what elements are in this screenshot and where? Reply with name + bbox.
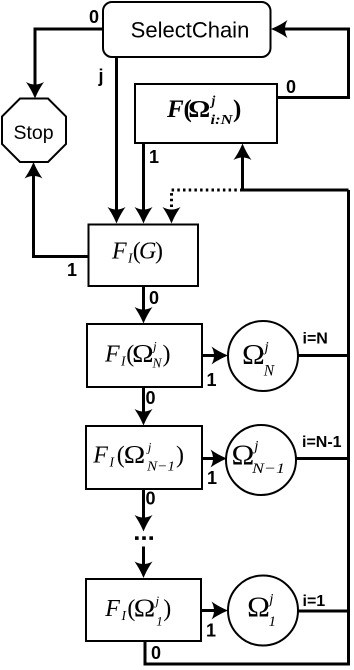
- svg-text:G: G: [139, 239, 156, 265]
- arrowhead into FI(Omega 1) top: [135, 562, 153, 579]
- wire circle N to bus: [297, 354, 350, 357]
- svg-text:0: 0: [145, 489, 155, 509]
- arrowhead into FI(G) top (dotted branch): [163, 207, 181, 224]
- wire dotted feedback to FI(G) top: [172, 190, 243, 213]
- wire F(Omega i:N) bottom 1-branch to FI(G): [142, 143, 145, 212]
- node Stop (octagon): [2, 99, 66, 163]
- arrowhead into circle 1: [212, 602, 229, 620]
- wire FI(G) bottom 0 to FI(Omega N): [142, 286, 145, 312]
- arrowhead into Stop top: [26, 82, 44, 99]
- wire SelectChain left 0-branch to Stop: [35, 29, 103, 87]
- wire dots to FI(Omega 1): [142, 547, 145, 567]
- svg-text:Ω: Ω: [134, 595, 156, 622]
- node circle Omega N: [228, 321, 298, 391]
- arrowhead into circle N-1: [211, 450, 228, 468]
- node FI(Omega 1) box: [86, 579, 201, 641]
- svg-text:Stop: Stop: [13, 122, 53, 144]
- svg-text:F: F: [111, 239, 127, 265]
- svg-text:N−1: N−1: [146, 460, 175, 475]
- svg-text:i:N: i:N: [211, 112, 235, 127]
- svg-text:1: 1: [156, 614, 163, 629]
- svg-text:i=1: i=1: [303, 593, 326, 610]
- wire FI(Omega N) right 1 to circle N: [202, 354, 217, 357]
- wire feedback solid from bus to F(Omega i:N) bottom: [243, 155, 349, 190]
- svg-text:F: F: [166, 96, 184, 123]
- svg-text:i=N: i=N: [303, 331, 328, 348]
- arrowhead above dots: [135, 515, 153, 532]
- svg-text:i=N-1: i=N-1: [302, 434, 342, 451]
- wire FI(G) left 1-branch to Stop bottom: [34, 174, 90, 257]
- arrowhead into FI(Omega N-1) top: [135, 409, 153, 426]
- wire FI(Omega N-1) bottom 0 to dots: [142, 489, 145, 520]
- arrowhead up into F(Omega i:N) bottom: [234, 144, 252, 161]
- svg-text:SelectChain: SelectChain: [131, 18, 250, 43]
- wire bottom 0-loop from FI(Omega 1) to right bus: [145, 190, 349, 664]
- svg-text:1: 1: [207, 468, 217, 488]
- svg-text:1: 1: [206, 621, 216, 641]
- wire FI(Omega 1) right 1 to circle 1: [201, 609, 217, 612]
- svg-text:): ): [155, 239, 163, 265]
- arrowhead up into Stop bottom: [25, 162, 43, 179]
- wire circle N-1 to bus: [296, 457, 350, 460]
- node SelectChain: [103, 2, 271, 57]
- node FI(G) box: [89, 225, 199, 287]
- svg-text:F: F: [92, 443, 108, 469]
- arrowhead into FI(G) top (j): [108, 207, 126, 224]
- svg-text:1: 1: [149, 147, 159, 167]
- node dots (ellipsis between chain boxes): [135, 536, 153, 540]
- svg-text:0: 0: [89, 7, 99, 27]
- node FI(Omega N) box: [87, 324, 202, 387]
- svg-text:0: 0: [145, 388, 155, 408]
- svg-text:0: 0: [149, 288, 159, 308]
- svg-text:Ω: Ω: [232, 441, 255, 472]
- svg-text:Ω: Ω: [188, 97, 210, 123]
- arrowhead into FI(Omega N) top: [135, 307, 153, 324]
- svg-text:N−1: N−1: [251, 461, 285, 477]
- wire F(Omega i:N) right 0-loop back to SelectChain: [277, 29, 349, 98]
- svg-text:Ω: Ω: [247, 593, 270, 624]
- svg-text:1: 1: [269, 614, 277, 630]
- svg-text:N: N: [152, 356, 163, 371]
- svg-text:F: F: [104, 342, 120, 368]
- wire FI(Omega N-1) right 1 to circle N-1: [202, 457, 216, 460]
- node F(Omega j i:N) box: [135, 84, 277, 143]
- arrowhead into SelectChain right: [271, 20, 288, 38]
- svg-text:): ): [176, 443, 184, 469]
- node circle Omega 1: [228, 576, 298, 646]
- svg-text:0: 0: [286, 77, 296, 97]
- svg-text:Ω: Ω: [132, 341, 154, 368]
- svg-text:Ω: Ω: [124, 442, 146, 469]
- node FI(Omega N-1) box: [86, 426, 202, 489]
- node circle Omega N-1: [226, 425, 296, 495]
- arrowhead into FI(G) top (1): [135, 207, 153, 224]
- svg-text:1: 1: [67, 260, 77, 280]
- svg-text:Ω: Ω: [242, 340, 265, 371]
- svg-text:N: N: [263, 363, 276, 380]
- wire FI(Omega N) bottom 0 to FI(Omega N-1): [142, 387, 145, 414]
- svg-text:1: 1: [206, 370, 216, 390]
- svg-text:j: j: [97, 66, 103, 86]
- svg-text:0: 0: [151, 643, 161, 663]
- wire SelectChain bottom j-branch to FI(G): [115, 57, 118, 212]
- svg-text:): ): [233, 96, 241, 123]
- svg-text:): ): [163, 342, 171, 368]
- svg-text:F: F: [104, 596, 120, 622]
- wire circle 1 to bus: [298, 610, 350, 613]
- svg-text:): ): [163, 596, 171, 622]
- arrowhead into circle N: [212, 347, 229, 365]
